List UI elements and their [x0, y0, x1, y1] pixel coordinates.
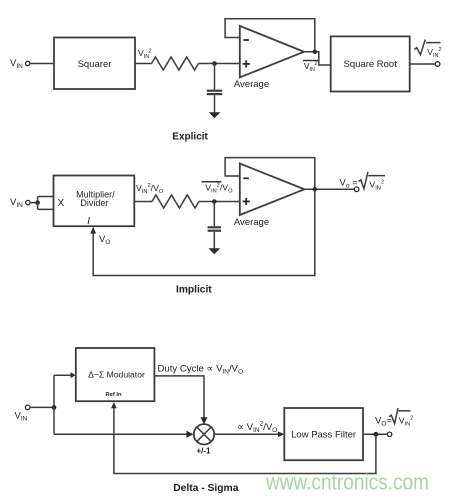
svg-text:Squarer: Squarer: [78, 59, 112, 70]
svg-text:Vo =: Vo =: [340, 178, 359, 190]
svg-text:Ref In: Ref In: [105, 392, 122, 398]
svg-text:Δ−Σ Modulator: Δ−Σ Modulator: [88, 369, 145, 379]
svg-text:I: I: [87, 216, 90, 227]
svg-text:X: X: [58, 198, 65, 209]
svg-text:Divider: Divider: [80, 198, 108, 208]
svg-text:Average: Average: [234, 217, 269, 228]
svg-text:Delta - Sigma: Delta - Sigma: [173, 483, 239, 494]
svg-text:Low Pass Filter: Low Pass Filter: [291, 429, 356, 440]
svg-text:Average: Average: [234, 79, 269, 90]
svg-text:Duty Cycle ∝ VIN/VO: Duty Cycle ∝ VIN/VO: [158, 364, 244, 376]
svg-text:Square Root: Square Root: [344, 59, 398, 70]
svg-text:Implicit: Implicit: [176, 285, 212, 296]
svg-text:Explicit: Explicit: [172, 132, 208, 143]
svg-text:+/-1: +/-1: [197, 446, 212, 455]
svg-text:www.cntronics.com: www.cntronics.com: [265, 469, 429, 494]
